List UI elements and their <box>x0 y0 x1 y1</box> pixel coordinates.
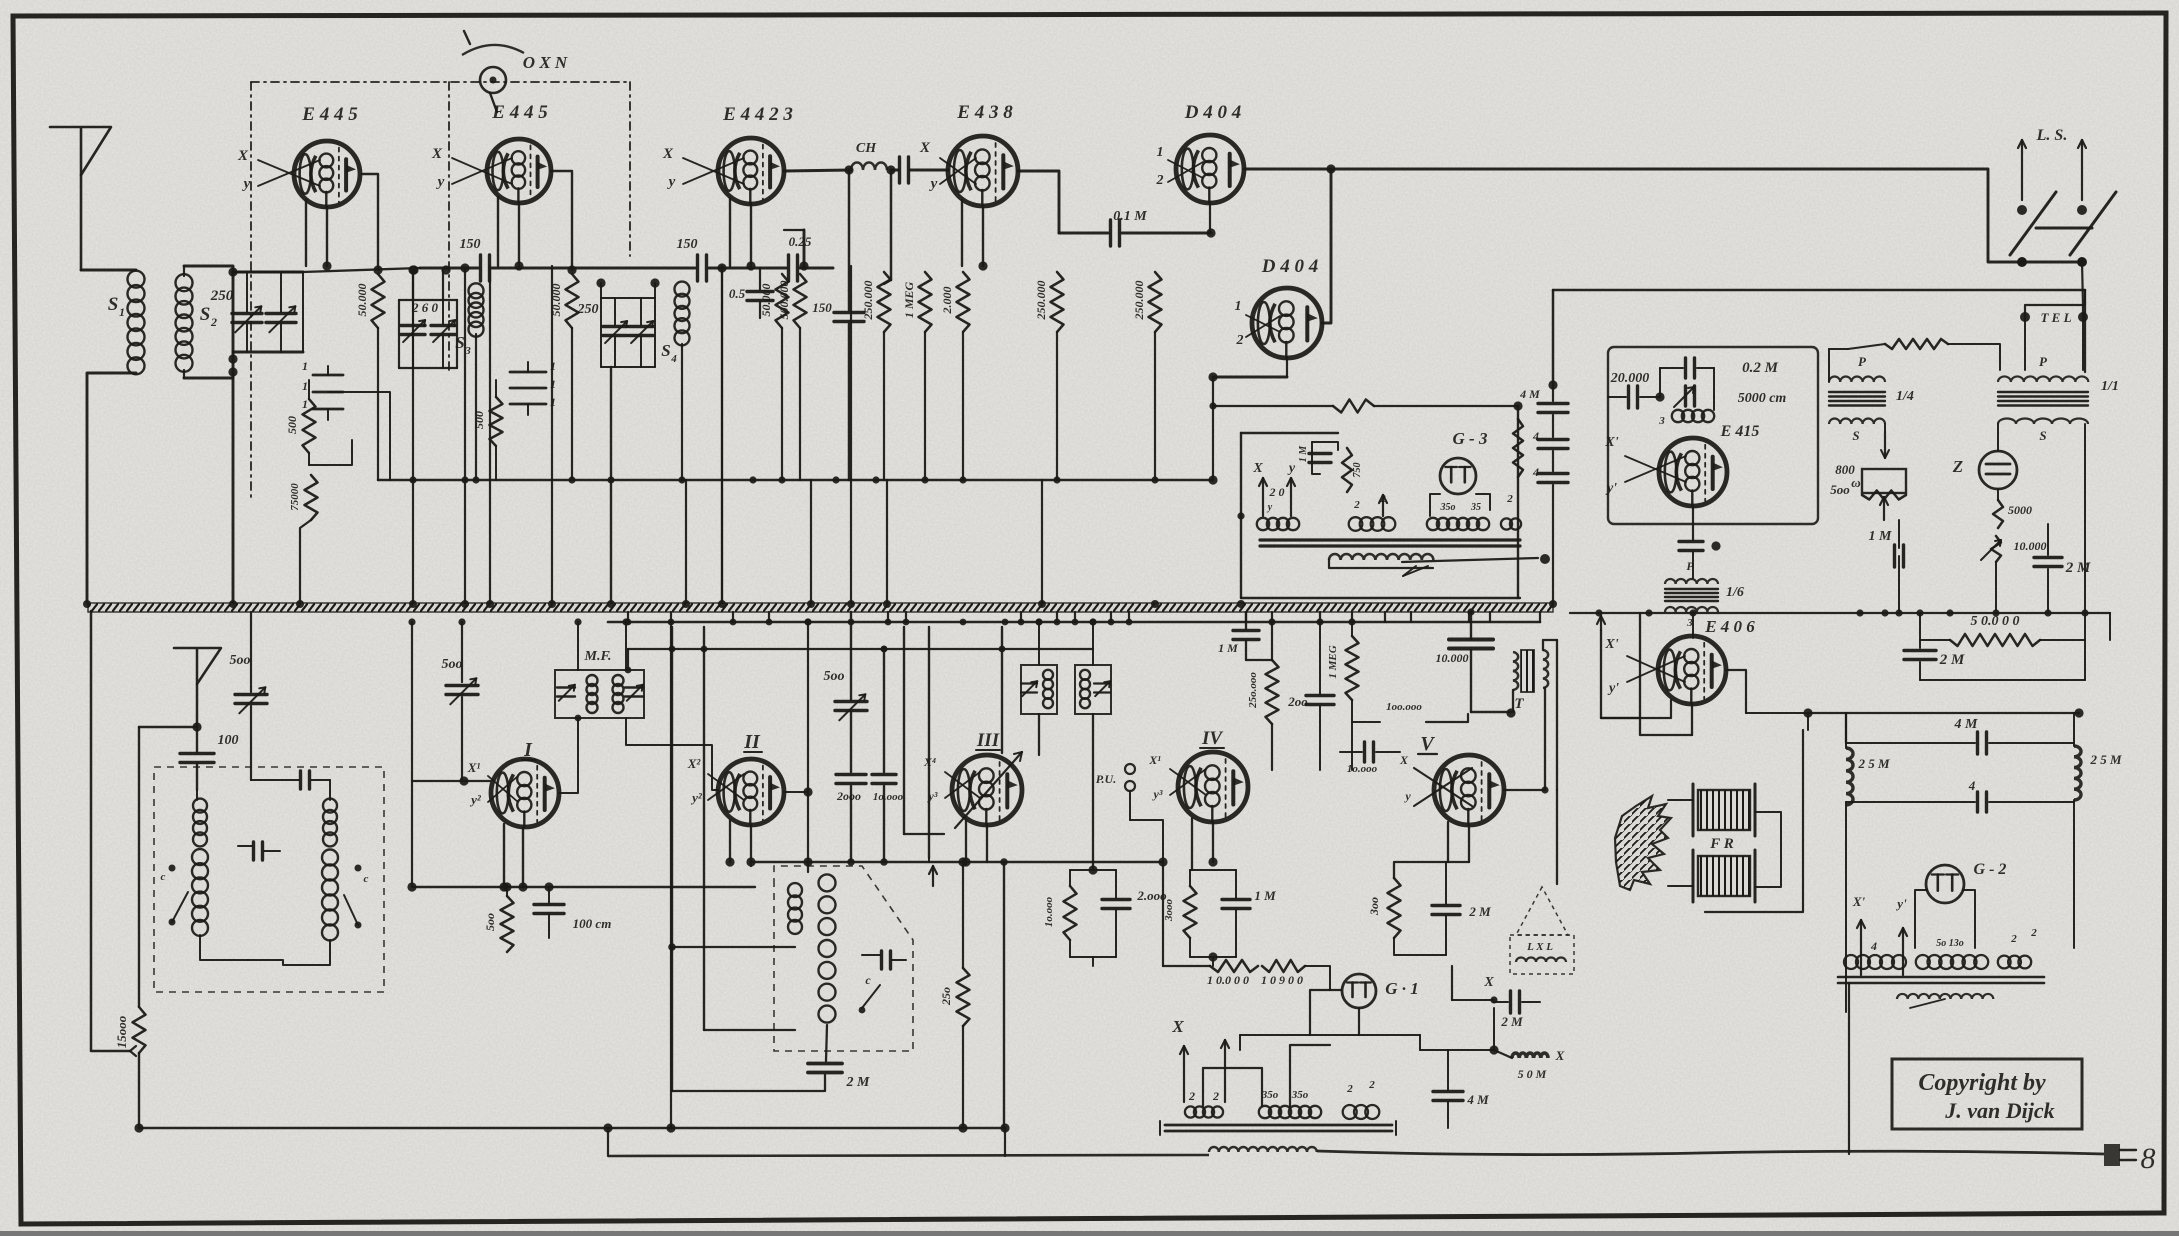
variable capacitor 500 (II) <box>835 612 867 772</box>
svg-text:Z: Z <box>1952 457 1963 476</box>
wire <box>826 1025 827 1061</box>
svg-text:4: 4 <box>1532 465 1539 479</box>
label X <box>919 140 938 192</box>
label X1 y2 <box>467 760 482 807</box>
wire <box>1394 822 1469 878</box>
grid capacitor 150 (1) <box>233 267 478 269</box>
svg-text:8: 8 <box>2141 1142 2156 1175</box>
capacitor 2MF (2) <box>1904 613 1965 680</box>
tube E445 (2) <box>487 139 551 203</box>
node <box>2044 609 2051 616</box>
coil box dashed (II) <box>774 866 913 1051</box>
svg-text:5oo: 5oo <box>483 913 497 931</box>
grid condenser stack (1) <box>302 359 343 420</box>
svg-text:1 M: 1 M <box>1298 445 1309 463</box>
tube E438 <box>948 136 1018 206</box>
svg-text:V: V <box>1420 733 1435 755</box>
resistor 5000 <box>1993 500 2032 528</box>
label 1/6 <box>1686 559 1744 629</box>
speaker coil top <box>1693 784 1755 836</box>
label 1MF <box>1869 529 1893 544</box>
winding (1) <box>1185 1106 1223 1117</box>
winding <box>1501 493 1521 530</box>
label pins <box>1235 299 1244 348</box>
bus stub <box>905 612 907 622</box>
svg-text:1 M: 1 M <box>1218 641 1238 655</box>
wire <box>1039 714 1098 875</box>
svg-text:y: y <box>1267 502 1273 513</box>
resistor 50.000 <box>566 274 579 480</box>
label X y <box>1252 461 1296 476</box>
label X2 y2 <box>687 756 703 805</box>
svg-text:1/1: 1/1 <box>2101 379 2119 394</box>
node <box>228 267 237 376</box>
svg-text:5oo: 5oo <box>230 653 251 668</box>
label E4423 <box>722 104 793 125</box>
grid condenser stack (2) <box>510 359 556 415</box>
coil L2b <box>322 850 338 941</box>
capacitor 10.000b (V) <box>1340 742 1400 775</box>
svg-text:1 MEG: 1 MEG <box>1327 645 1339 678</box>
capacitor <box>251 771 330 789</box>
node <box>959 476 966 483</box>
wire <box>717 263 726 603</box>
wire <box>574 618 629 670</box>
varcap MF L <box>557 685 575 701</box>
module box MF <box>555 670 644 718</box>
svg-text:150: 150 <box>460 237 481 252</box>
tube E445 (1) <box>294 141 360 207</box>
capacitor <box>1679 506 1721 551</box>
tank box (2) <box>1075 665 1111 714</box>
switch <box>859 985 880 1013</box>
svg-text:4 M: 4 M <box>1519 387 1540 401</box>
svg-text:O X N: O X N <box>523 53 568 72</box>
label E406 <box>1704 617 1755 636</box>
resistor 100.000 <box>722 701 1468 1236</box>
winding (3) <box>1343 1079 1380 1119</box>
node <box>2081 609 2088 616</box>
capacitor 4 <box>1846 778 2074 812</box>
svg-text:E 4 0 6: E 4 0 6 <box>1704 617 1755 636</box>
label 500 <box>442 657 463 672</box>
wire col <box>666 622 675 1133</box>
svg-text:P: P <box>1858 354 1867 369</box>
cell Z <box>1979 451 2017 489</box>
wire <box>197 780 330 800</box>
wire <box>251 779 299 781</box>
wire <box>884 170 891 284</box>
bus node <box>607 600 615 608</box>
wire <box>1846 800 2074 1012</box>
tank coil (1) <box>1043 670 1053 708</box>
wire anode <box>551 171 577 275</box>
resistor 500 (I) <box>483 882 514 952</box>
svg-text:1/4: 1/4 <box>1896 389 1914 404</box>
wire <box>2084 290 2086 305</box>
terminal arrows X <box>1180 1040 1229 1102</box>
lead cross <box>488 776 518 802</box>
svg-text:1o.ooo: 1o.ooo <box>873 791 904 803</box>
label FR <box>1709 836 1734 852</box>
wire y480 <box>378 479 1213 482</box>
tube D404 (2) <box>1252 288 1322 358</box>
bus stub <box>1074 612 1076 622</box>
ground bus <box>88 603 1553 612</box>
label I <box>522 739 536 761</box>
capacitor 1MF <box>1895 520 1904 611</box>
svg-text:X': X' <box>1852 894 1866 909</box>
coil box dashed <box>154 767 384 992</box>
lead cross <box>945 772 980 798</box>
label 150 <box>677 237 698 252</box>
tube III arrow <box>955 752 1022 828</box>
svg-text:E 4 3 8: E 4 3 8 <box>956 102 1013 123</box>
tube II <box>718 759 784 825</box>
svg-text:75000: 75000 <box>289 483 301 511</box>
wire <box>1808 708 2084 717</box>
svg-text:c: c <box>364 873 369 885</box>
svg-text:2: 2 <box>1156 173 1164 188</box>
node <box>678 476 685 483</box>
winding 3 <box>1658 397 1714 427</box>
lead cross <box>683 158 744 184</box>
svg-text:CH: CH <box>856 141 877 156</box>
svg-text:S: S <box>1852 428 1859 443</box>
svg-text:5 0.0 0 0: 5 0.0 0 0 <box>1971 614 2020 629</box>
transformer 1/4 P <box>1829 377 1885 383</box>
wire to bus <box>721 266 723 603</box>
winding out (1) <box>1844 939 1906 969</box>
svg-text:S: S <box>661 341 670 360</box>
svg-text:3: 3 <box>1658 415 1665 427</box>
resistor 500 (1) <box>285 392 316 453</box>
label X' y' <box>1852 894 1907 911</box>
svg-text:1: 1 <box>302 359 308 373</box>
label 0.2MF <box>1742 360 1779 376</box>
tank varcap (2) <box>1094 681 1110 696</box>
wire <box>712 791 718 793</box>
wire <box>1310 990 1359 1035</box>
lead cross <box>708 774 744 800</box>
variable capacitor 500 (I) <box>446 618 478 781</box>
label III <box>976 730 1000 751</box>
variable capacitor 250 (b) <box>596 278 659 367</box>
svg-text:2 M: 2 M <box>1468 904 1491 919</box>
bus stub <box>887 612 889 622</box>
svg-text:L. S.: L. S. <box>2036 127 2068 144</box>
svg-text:4: 4 <box>1968 778 1976 793</box>
tank varcap (1) <box>1021 681 1037 696</box>
svg-text:2: 2 <box>1236 333 1244 348</box>
lead cross <box>1627 656 1685 682</box>
bus node <box>718 600 726 608</box>
coil L1b <box>192 849 208 936</box>
bus stub <box>1056 612 1058 622</box>
svg-text:II: II <box>743 731 761 753</box>
resistor 10000 var <box>1981 536 2047 562</box>
wire col <box>668 627 676 1091</box>
tube IV <box>1178 752 1248 822</box>
capacitor 100cm <box>534 887 611 938</box>
svg-text:X': X' <box>1604 637 1618 652</box>
resistor 250.000 <box>1051 272 1064 480</box>
capacitor 1M <box>1298 442 1338 474</box>
winding <box>1257 502 1299 530</box>
wire cathode I <box>499 824 527 892</box>
bus stub <box>627 612 629 622</box>
terminal arrows <box>1259 478 1295 516</box>
node <box>872 476 879 483</box>
capacitor 4MF (G1) <box>1420 1050 1494 1128</box>
resistor 2.000 <box>957 272 970 480</box>
wire <box>784 165 854 310</box>
resistor 10.000 <box>1043 870 1077 957</box>
svg-text:3oo: 3oo <box>1367 897 1381 916</box>
label 250 <box>577 302 599 317</box>
capacitor 10.000 (V) <box>1436 608 1516 717</box>
tank box (1) <box>1021 665 1057 714</box>
node <box>1992 609 1999 616</box>
svg-text:X¹: X¹ <box>467 760 481 775</box>
svg-text:1: 1 <box>119 305 125 319</box>
wire <box>498 197 524 271</box>
svg-text:E 415: E 415 <box>1720 423 1760 440</box>
wire to bus <box>850 266 852 603</box>
svg-text:2 M: 2 M <box>846 1075 871 1090</box>
wire <box>1829 349 1848 382</box>
svg-text:S: S <box>200 304 211 325</box>
label 0.1MF <box>1113 209 1147 224</box>
wire <box>961 820 987 867</box>
winding <box>1349 517 1396 531</box>
label 1 MEG <box>902 281 916 318</box>
svg-text:y: y <box>929 176 938 192</box>
winding MF <box>587 675 624 713</box>
wire <box>2025 317 2083 370</box>
label 260 <box>411 300 439 315</box>
transformer 1/6 bars <box>1665 589 1718 601</box>
wire <box>1745 830 1747 856</box>
antenna A2 <box>174 648 221 732</box>
wire <box>603 1123 612 1156</box>
transformer 1/4 bars <box>1829 392 1885 406</box>
svg-text:X: X <box>431 146 443 162</box>
svg-text:2: 2 <box>1506 493 1513 505</box>
capacitor 1MF (V) <box>1218 612 1272 660</box>
svg-text:750: 750 <box>1352 463 1363 478</box>
bus node <box>548 600 556 608</box>
resistor 250.000 <box>1149 272 1162 480</box>
svg-text:1 0.0 0 0: 1 0.0 0 0 <box>1207 973 1249 987</box>
labels 2 2 <box>1188 1089 1219 1103</box>
label E438 <box>956 102 1013 123</box>
node <box>472 476 479 483</box>
capacitor 2MF <box>2034 290 2062 611</box>
svg-text:35o: 35o <box>1261 1089 1279 1101</box>
svg-text:5oo: 5oo <box>442 657 463 672</box>
wire <box>1322 169 1331 323</box>
wire anode E438 <box>1018 171 1059 233</box>
label G-1 <box>1385 979 1419 998</box>
svg-text:10.000: 10.000 <box>1436 651 1469 665</box>
tube I <box>491 759 559 827</box>
choke 25M right <box>2074 746 2122 800</box>
transformer 1/1 S <box>1998 419 2088 425</box>
svg-text:S: S <box>455 333 464 352</box>
label 100 <box>218 733 239 748</box>
wire <box>1548 380 1557 389</box>
bus node <box>1151 600 1159 608</box>
wire <box>1209 203 1211 233</box>
lead cross <box>452 158 512 184</box>
wire <box>1192 818 1218 870</box>
label CH <box>856 141 877 156</box>
label X' <box>1604 435 1618 496</box>
capacitor 200 <box>1287 618 1334 770</box>
svg-text:5oo: 5oo <box>824 669 845 684</box>
wire <box>200 935 248 960</box>
resistor 75000 <box>289 475 318 603</box>
svg-text:1 MEG: 1 MEG <box>902 281 916 318</box>
wire y887 <box>407 882 755 891</box>
wire <box>1208 358 1287 485</box>
label 2.000 <box>940 287 954 315</box>
bus node <box>682 600 690 608</box>
wire to bus <box>412 480 414 603</box>
node <box>1689 609 1696 616</box>
wire <box>1190 870 1236 966</box>
node <box>1595 609 1602 616</box>
bar <box>1838 977 2044 983</box>
wire col <box>704 627 795 1030</box>
bus stub <box>1245 612 1247 622</box>
wire <box>1997 424 1999 500</box>
svg-text:250.000: 250.000 <box>1132 281 1146 321</box>
wire col <box>904 627 944 834</box>
wire col <box>1001 627 1003 753</box>
mains lead <box>608 1155 1209 1156</box>
svg-text:2: 2 <box>1188 1089 1195 1103</box>
variable capacitor 500 (b1) <box>235 612 267 780</box>
bus stub <box>1110 612 1112 622</box>
wire steps <box>1203 1045 1330 1106</box>
wire row 613 <box>1570 612 2110 614</box>
svg-text:5o 13o: 5o 13o <box>1936 938 1964 949</box>
svg-text:X': X' <box>1604 435 1618 450</box>
capacitor 4MF <box>1846 717 2074 754</box>
svg-text:y²: y² <box>690 790 703 805</box>
node <box>409 476 416 483</box>
node <box>1856 609 1863 616</box>
svg-text:F R: F R <box>1709 836 1734 852</box>
wire to bus <box>886 480 888 603</box>
svg-text:1/6: 1/6 <box>1726 585 1744 600</box>
label X <box>662 146 676 190</box>
wire <box>2109 613 2111 640</box>
label X (2) <box>1452 966 1498 1004</box>
svg-text:III: III <box>976 730 1000 751</box>
resistor 1MEG <box>1327 618 1359 770</box>
wire sub-bus 2 <box>625 646 1093 674</box>
label Z <box>1952 457 1963 476</box>
svg-text:10.000: 10.000 <box>2014 539 2047 553</box>
wire <box>2025 262 2083 317</box>
node <box>1946 609 1953 616</box>
svg-text:250: 250 <box>210 288 234 304</box>
wire <box>1489 1008 1512 1058</box>
tube G-3 <box>1440 458 1476 494</box>
bus stub <box>1384 612 1386 622</box>
label 20 <box>1269 485 1285 499</box>
mains coil <box>1209 1147 1317 1152</box>
lead cross V <box>1399 753 1472 806</box>
speaker wires <box>1668 730 1803 912</box>
svg-text:Copyright by: Copyright by <box>1918 1070 2046 1096</box>
svg-text:IV: IV <box>1201 728 1223 749</box>
wire <box>1692 552 1694 638</box>
wire steps2 <box>1240 1035 1420 1050</box>
bus stub <box>1271 612 1273 622</box>
lead cross <box>1170 769 1206 795</box>
wire <box>730 198 756 271</box>
wire <box>1920 613 2085 680</box>
svg-text:2 M: 2 M <box>1939 652 1965 668</box>
wire <box>626 718 718 790</box>
label 150 <box>812 300 832 315</box>
bus node <box>1237 600 1245 608</box>
switch c2 <box>344 865 369 929</box>
label X <box>237 148 251 192</box>
wire <box>1915 890 1975 948</box>
svg-text:100 cm: 100 cm <box>573 916 612 931</box>
wire anode I <box>559 715 581 793</box>
winding <box>788 883 802 934</box>
node <box>778 476 785 483</box>
winding tall <box>819 874 836 1022</box>
svg-text:P: P <box>2039 354 2048 369</box>
wire <box>1845 713 1847 743</box>
svg-text:2 M: 2 M <box>1500 1014 1523 1029</box>
screen box <box>251 82 630 500</box>
wire <box>1513 640 1557 884</box>
svg-text:M.F.: M.F. <box>584 649 612 664</box>
resistor 50.000 <box>776 274 789 480</box>
wire <box>408 263 469 480</box>
svg-text:1o.ooo: 1o.ooo <box>1043 896 1055 927</box>
label S2 <box>200 304 217 329</box>
mark 8 <box>2141 1142 2156 1175</box>
svg-text:1oo.ooo: 1oo.ooo <box>1386 701 1422 713</box>
resistor 10.000 (h) <box>1163 960 1330 990</box>
node <box>1881 609 1888 616</box>
wire arrow <box>1881 424 1889 458</box>
wire <box>1430 494 1490 516</box>
label MF <box>584 649 612 664</box>
wire <box>91 611 136 1056</box>
wire anode E406 <box>1726 670 1746 713</box>
wire <box>575 267 695 270</box>
label X' <box>1604 637 1619 696</box>
wire <box>306 200 332 271</box>
wire long bottom <box>134 1123 1005 1132</box>
svg-text:1: 1 <box>1157 145 1164 160</box>
resistor 50.000 <box>1920 614 2085 646</box>
label 500 <box>824 669 845 684</box>
label S3 <box>455 333 471 357</box>
bus node <box>409 600 417 608</box>
svg-text:2 6 0: 2 6 0 <box>411 300 439 315</box>
